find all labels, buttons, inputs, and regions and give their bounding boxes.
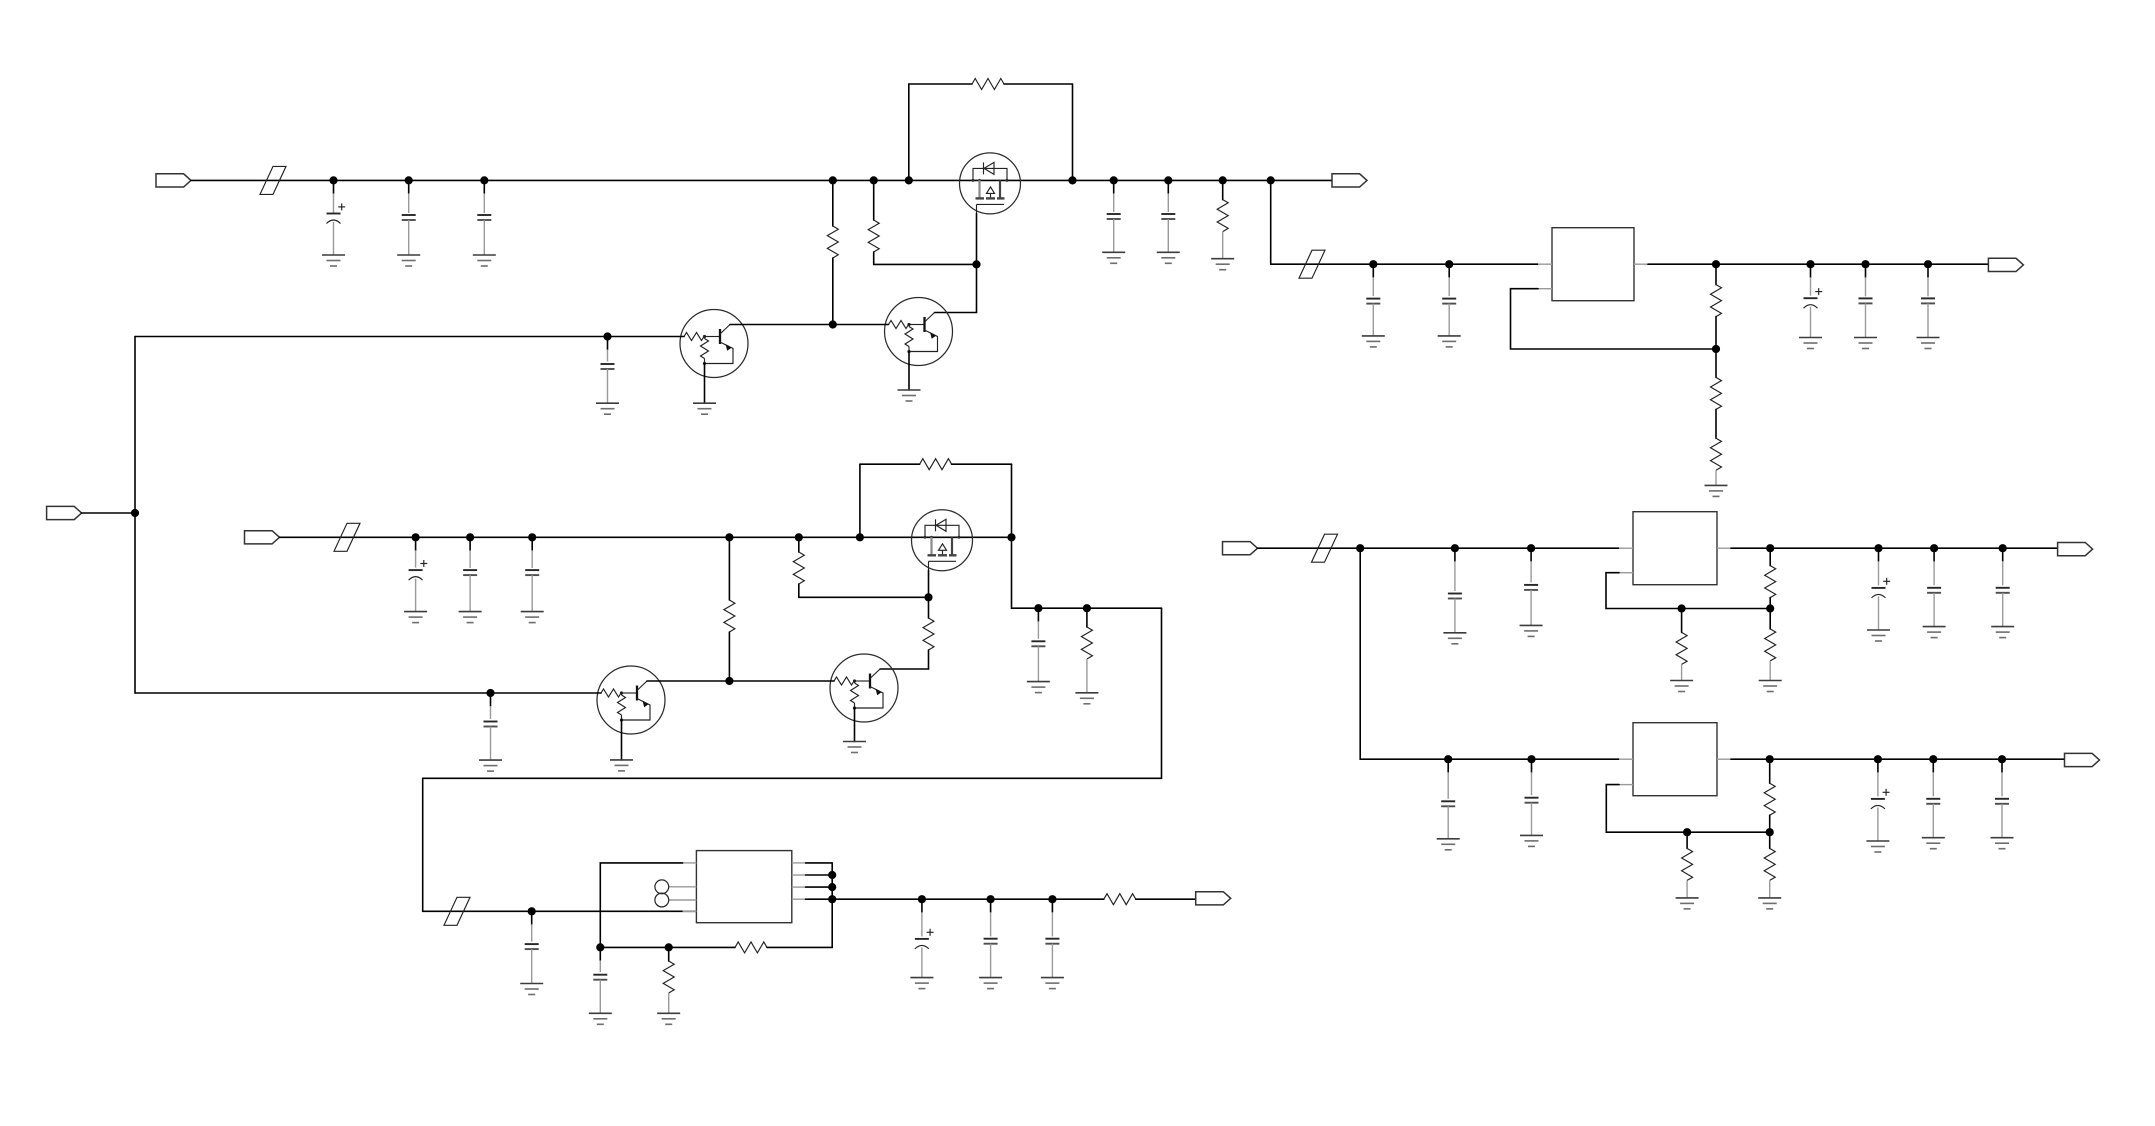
resistor R15 (divider bottom) xyxy=(1711,438,1722,485)
ground xyxy=(520,984,543,995)
ground xyxy=(521,612,544,623)
ground xyxy=(910,978,933,989)
junction (600.3,947.4) xyxy=(596,943,604,951)
ground xyxy=(459,612,482,623)
junction (976.5,264.4) xyxy=(972,260,980,268)
wire U3 output xyxy=(1731,547,2059,549)
bus entry BE2 xyxy=(334,523,360,551)
capacitor C27 xyxy=(1441,759,1455,839)
wire xyxy=(1258,547,1620,549)
junction (921.9,899.2) xyxy=(918,895,926,903)
op-amp U1 (supervisor IC box) xyxy=(669,851,806,923)
junction (990.6,899.2) xyxy=(987,895,995,903)
wire control line row1 xyxy=(135,336,684,338)
wire Q2 emitter to ground xyxy=(908,352,910,391)
ground xyxy=(589,1013,612,1024)
junction (2002,759.2) xyxy=(1998,755,2006,763)
junction (135,513) xyxy=(131,509,139,517)
capacitor C29 (polarized) xyxy=(1871,759,1890,841)
capacitor C24 (polarized) xyxy=(1872,548,1891,630)
junction (1448.2,759.2) xyxy=(1444,755,1452,763)
input connector J3 xyxy=(47,506,82,519)
capacitor C25 xyxy=(1927,548,1941,626)
ground xyxy=(1520,835,1543,846)
capacitor C26 xyxy=(1996,548,2010,626)
junction (333.5,180.4) xyxy=(329,176,337,184)
wire U4 output xyxy=(1731,758,2066,760)
ground xyxy=(1854,338,1877,349)
ground xyxy=(397,255,420,266)
junction (1113.7,180.4) xyxy=(1110,176,1118,184)
wire Q6 emitter to ground xyxy=(854,708,856,742)
ground xyxy=(1758,898,1781,909)
capacitor C14 (polarized) xyxy=(915,899,934,977)
junction (668.7,947.4) xyxy=(665,943,673,951)
junction (1168.3,180.4) xyxy=(1164,176,1172,184)
wire Q2 base line xyxy=(833,324,889,326)
input connector J7 xyxy=(1223,542,1258,555)
output connector J6 xyxy=(1988,258,2023,271)
ground xyxy=(1438,336,1461,347)
resistor R8 (gate node to Q6 collector) xyxy=(880,597,934,669)
resistor R19 (divider top) xyxy=(1764,759,1775,832)
junction (832.2,899.2) xyxy=(828,895,836,903)
junction (859.9,537.3) xyxy=(856,533,864,541)
junction (1373.3,264.2) xyxy=(1369,260,1377,268)
ground xyxy=(1102,252,1125,263)
junction (1449.2,264.2) xyxy=(1445,260,1453,268)
junction (1086.9,608.2) xyxy=(1083,604,1091,612)
capacitor C3 xyxy=(477,180,491,255)
transistor Q6 (pre-biased NPN) xyxy=(830,654,898,722)
junction (1531.5,759.2) xyxy=(1527,755,1535,763)
capacitor C28 xyxy=(1525,759,1539,835)
junction (1681.6,608.5) xyxy=(1678,604,1686,612)
wire main top bus xyxy=(191,179,1332,181)
wire gate of Q4 xyxy=(928,570,930,597)
resistor R17 (fb to ground) xyxy=(1676,609,1687,681)
resistor R18 (divider bottom) xyxy=(1765,609,1776,681)
transistor Q3 (pre-biased NPN) xyxy=(680,310,748,378)
junction (1769.7,759.2) xyxy=(1766,755,1774,763)
junction (1222.7,180.4) xyxy=(1219,176,1227,184)
junction (1052.4,899.2) xyxy=(1048,895,1056,903)
junction (1810.5,264.2) xyxy=(1806,260,1814,268)
ground xyxy=(1520,625,1543,636)
junction (607.5,336.5) xyxy=(603,332,611,340)
wire xyxy=(1360,758,1619,760)
ground xyxy=(1917,338,1940,349)
junction (1877.9,759.2) xyxy=(1874,755,1882,763)
resistor R13 (divider top) xyxy=(1711,264,1722,349)
capacitor C21 xyxy=(1921,264,1935,337)
wire Q5 collector to Q6 base xyxy=(647,680,834,682)
resistor R6 (gate pull-up) xyxy=(793,537,804,597)
ground xyxy=(1027,682,1050,693)
wire IC output xyxy=(832,898,1104,900)
capacitor C17 xyxy=(1366,264,1380,336)
junction (729.4,681) xyxy=(725,677,733,685)
junction (928.5,597.3) xyxy=(924,593,932,601)
bus entry BE4 xyxy=(1312,534,1338,562)
junction (1878.5,548.2) xyxy=(1874,544,1882,552)
junction (415.6,537.3) xyxy=(412,533,420,541)
resistor R9 xyxy=(1081,608,1092,693)
ground xyxy=(322,255,345,266)
capacitor C11 xyxy=(1031,608,1045,681)
junction (1270.7,180.4) xyxy=(1267,176,1275,184)
ground xyxy=(1211,259,1234,270)
junction (470.1,537.3) xyxy=(466,533,474,541)
junction (2002.7,548.2) xyxy=(1999,544,2007,552)
capacitor C12 xyxy=(525,911,539,983)
junction (873.7,180.4) xyxy=(870,176,878,184)
junction (1011.5,537.3) xyxy=(1007,533,1015,541)
ground xyxy=(1922,838,1945,849)
junction (1072.5,180.4) xyxy=(1068,176,1076,184)
capacitor C10 on Q5 base xyxy=(484,693,498,760)
regulator U4 xyxy=(1619,723,1731,796)
junction (1865.5,264.2) xyxy=(1861,260,1869,268)
wire xyxy=(82,512,135,514)
output connector J2 xyxy=(1332,174,1367,187)
ground xyxy=(610,760,633,771)
capacitor C16 xyxy=(1045,899,1059,977)
feedback resistor R7 loop over Q4 xyxy=(860,459,1012,538)
ground xyxy=(1362,336,1385,347)
wire gate line row2 xyxy=(799,596,929,598)
junction (832.2,875) xyxy=(828,871,836,879)
ground xyxy=(1799,338,1822,349)
junction (1933.3,759.2) xyxy=(1929,755,1937,763)
junction (490.5,693) xyxy=(486,689,494,697)
junction (1038.4,608.2) xyxy=(1034,604,1042,612)
wire long return to bottom IC xyxy=(423,608,1162,911)
wire Q3 collector to R1/Q2 base xyxy=(730,324,833,326)
input connector J1 xyxy=(156,174,191,187)
junction (1934.1,548.2) xyxy=(1930,544,1938,552)
wire U2 feedback xyxy=(1511,289,1717,349)
input connector J4 xyxy=(245,531,280,544)
junction (1360.2,548.2) xyxy=(1356,544,1364,552)
capacitor C18 xyxy=(1442,264,1456,336)
bus entry BE1 xyxy=(260,166,286,194)
capacitor C7 (polarized) xyxy=(409,537,428,611)
node pad P2 xyxy=(655,893,669,907)
ground xyxy=(1867,630,1890,641)
ground xyxy=(1676,898,1699,909)
transistor Q2 (pre-biased NPN) xyxy=(885,298,953,366)
resistor R2 (gate pull-up) xyxy=(868,180,879,264)
ground xyxy=(1759,681,1782,692)
resistor R10 (feedback) xyxy=(735,942,767,953)
capacitor C6 xyxy=(1161,180,1175,252)
junction (798.8,537.3) xyxy=(795,533,803,541)
capacitor C13 xyxy=(593,947,607,1013)
output connector J9 xyxy=(2065,753,2100,766)
capacitor C8 xyxy=(463,537,477,611)
ground xyxy=(596,403,619,414)
ground xyxy=(1157,252,1180,263)
junction (1454.9,548.2) xyxy=(1451,544,1459,552)
wire gate node to Q2 collector xyxy=(935,264,977,312)
junction (729.4,537.3) xyxy=(725,533,733,541)
capacitor C19 (polarized) xyxy=(1804,264,1823,337)
ground xyxy=(898,390,921,401)
ground xyxy=(979,978,1002,989)
ground xyxy=(473,255,496,266)
feedback resistor R3 loop over Q1 xyxy=(909,79,1073,181)
resistor R11 xyxy=(663,947,674,1013)
junction (1531.1,548.2) xyxy=(1527,544,1535,552)
resistor R16 (divider top) xyxy=(1765,548,1776,608)
junction (832.8,324.5) xyxy=(829,320,837,328)
transistor Q5 (pre-biased NPN) xyxy=(597,666,665,734)
wire U4 feedback xyxy=(1606,785,1769,833)
wire branch down to third regulator xyxy=(1359,548,1361,759)
junction (532.2,537.3) xyxy=(528,533,536,541)
wire U1 pin1 loop xyxy=(600,863,682,948)
node pad P1 xyxy=(655,880,669,894)
ground xyxy=(1923,627,1946,638)
P-MOSFET Q4 xyxy=(912,510,973,571)
junction (484.3,180.4) xyxy=(480,176,488,184)
ground xyxy=(1991,838,2014,849)
capacitor C2 xyxy=(402,180,416,255)
wire xyxy=(767,946,832,948)
capacitor C9 xyxy=(525,537,539,611)
ground xyxy=(1705,485,1728,496)
capacitor C22 xyxy=(1448,548,1462,633)
wire vertical control bus xyxy=(134,337,136,694)
output connector J8 xyxy=(2058,543,2093,556)
resistor R5 (bus to base line) xyxy=(724,537,735,681)
ground xyxy=(1075,693,1098,704)
wire gate pull line xyxy=(874,263,977,265)
resistor R21 (divider bottom) xyxy=(1764,832,1775,898)
capacitor C20 xyxy=(1859,264,1873,337)
resistor R1 (bus to base line) xyxy=(827,180,838,324)
wire U1 right pins to vertical xyxy=(806,863,833,948)
wire feedback bottom line xyxy=(600,946,735,948)
junction (1770.2,608.5) xyxy=(1766,604,1774,612)
ground xyxy=(1437,839,1460,850)
resistor R4 (bleed to ground) xyxy=(1217,180,1228,258)
wire Q3 emitter to ground xyxy=(704,364,706,404)
wire xyxy=(1136,898,1197,900)
ground xyxy=(1041,978,1064,989)
junction (1928,264.2) xyxy=(1924,260,1932,268)
resistor R12 (series) xyxy=(1104,894,1136,905)
output connector J5 xyxy=(1196,892,1231,905)
wire second row bus xyxy=(280,536,1012,538)
junction (408.7,180.4) xyxy=(405,176,413,184)
ground xyxy=(1866,841,1889,852)
regulator U3 xyxy=(1619,512,1731,585)
junction (1769.7,832.2) xyxy=(1766,828,1774,836)
wire to regulator xyxy=(1271,263,1538,265)
ground xyxy=(1670,681,1693,692)
ground xyxy=(1443,633,1466,644)
wire Q5 emitter to ground xyxy=(621,720,623,760)
wire Q4 drain output going down/right xyxy=(1012,537,1162,608)
regulator U2 xyxy=(1538,228,1648,301)
capacitor C1 (polarized) xyxy=(327,180,346,255)
capacitor C30 xyxy=(1926,759,1940,838)
bus entry BE5 xyxy=(444,897,470,925)
capacitor C31 xyxy=(1995,759,2009,838)
capacitor C15 xyxy=(984,899,998,977)
P-MOSFET Q1 xyxy=(960,153,1021,214)
capacitor C5 xyxy=(1107,180,1121,252)
resistor R20 (fb to ground) xyxy=(1682,832,1693,898)
ground xyxy=(479,760,502,771)
wire gate of Q1 xyxy=(976,214,978,265)
ground xyxy=(693,403,716,414)
ground xyxy=(1991,627,2014,638)
wire U2 output xyxy=(1648,263,1989,265)
junction (832.8,180.4) xyxy=(829,176,837,184)
junction (908.8,180.4) xyxy=(905,176,913,184)
ground xyxy=(404,612,427,623)
ground xyxy=(657,1013,680,1024)
wire control line row2 xyxy=(135,692,601,694)
junction (531.7,911.3) xyxy=(528,907,536,915)
wire branch from top bus xyxy=(1270,180,1272,264)
capacitor C23 xyxy=(1524,548,1538,625)
junction (1770.2,548.2) xyxy=(1766,544,1774,552)
resistor R14 (divider mid) xyxy=(1711,349,1722,438)
ground xyxy=(843,742,866,753)
capacitor C4 on Q3 base xyxy=(601,337,615,404)
junction (1716,349) xyxy=(1712,345,1720,353)
bus entry BE3 xyxy=(1299,250,1325,278)
junction (1687.1,832.2) xyxy=(1683,828,1691,836)
junction (832.2,887.1) xyxy=(828,883,836,891)
wire U3 feedback xyxy=(1606,573,1770,609)
junction (1716,264.2) xyxy=(1712,260,1720,268)
